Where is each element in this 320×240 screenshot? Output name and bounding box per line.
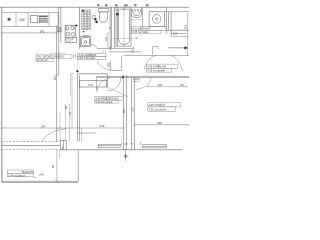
shelf with 170 — [80, 80, 107, 87]
dim line left 347/218 — [1, 127, 125, 129]
svg-text:53: 53 — [53, 77, 57, 80]
washbasin bathroom1 — [81, 35, 91, 46]
wall line mid — [109, 51, 142, 53]
wall WC right — [110, 7, 116, 48]
radiator 2 — [143, 145, 167, 148]
svg-text:310: 310 — [184, 24, 188, 29]
drain dot — [83, 31, 85, 33]
label balcony — [7, 170, 33, 177]
vent grate — [133, 78, 140, 81]
label bathroom1 — [78, 53, 106, 59]
extension line right — [80, 129, 82, 142]
svg-text:1,74 m2 gres pł.: 1,74 m2 gres pł. — [8, 174, 26, 177]
wall corridor bottom — [96, 75, 189, 77]
svg-text:ŁAZ 4,00 płytki: ŁAZ 4,00 płytki — [79, 57, 96, 60]
washing machine — [149, 12, 165, 27]
svg-text:ZM: ZM — [20, 18, 25, 22]
wall left — [1, 7, 3, 182]
balcony window band — [2, 141, 61, 151]
window dim ticks — [121, 142, 123, 146]
door arc corridor left — [97, 61, 110, 71]
inner line — [59, 150, 61, 158]
arrow mark at hob — [75, 24, 78, 27]
window sill top-right — [164, 11, 189, 13]
plumbing circle — [92, 15, 96, 19]
towel radiator grid — [82, 10, 91, 30]
plumbing dot2 — [95, 21, 97, 23]
svg-text:42: 42 — [68, 112, 72, 115]
radiator valve blob — [82, 10, 84, 12]
wall basin/WM divider — [141, 7, 143, 27]
svg-text:341: 341 — [40, 29, 45, 33]
wall bathroom1 left — [79, 7, 81, 49]
door arc room right — [136, 77, 151, 89]
wall lines right — [166, 29, 189, 31]
small text right — [147, 86, 188, 88]
level marker — [124, 150, 128, 161]
bathtub — [117, 7, 131, 46]
wall room left top — [77, 74, 107, 142]
svg-text:110: 110 — [104, 36, 108, 41]
tick — [109, 47, 111, 51]
dotted riser — [76, 59, 78, 71]
label kitchen room — [36, 55, 72, 62]
kitchen sink unit — [65, 37, 76, 42]
wall top — [0, 6, 189, 8]
dim line right 248 — [133, 124, 189, 126]
wall kitchen/room divider — [54, 7, 61, 141]
svg-text:7,35 m2 panele: 7,35 m2 panele — [149, 107, 167, 111]
svg-text:×: × — [34, 176, 36, 180]
label room right bottom — [148, 103, 181, 112]
mullion wall — [60, 140, 66, 150]
svg-text:302: 302 — [158, 83, 163, 87]
door arc double left — [144, 56, 156, 71]
svg-text:347: 347 — [41, 124, 46, 128]
dot marker — [116, 13, 119, 16]
plumbing dot — [94, 18, 96, 20]
door arc below wall — [97, 78, 111, 92]
svg-text:98: 98 — [51, 165, 55, 168]
svg-text:48: 48 — [64, 106, 68, 109]
entrance arrow — [168, 47, 185, 49]
fridge icon in counter — [31, 15, 48, 22]
svg-text:5,46 m2 panele: 5,46 m2 panele — [96, 101, 114, 104]
leader diagonal — [107, 87, 128, 97]
svg-text:240: 240 — [39, 172, 44, 176]
label corridor — [95, 97, 124, 103]
radiator 1 — [98, 144, 120, 147]
svg-text:237: 237 — [131, 107, 135, 112]
label block WC — [132, 27, 167, 34]
wall bottom main — [60, 149, 182, 151]
dim vertical balcony — [56, 150, 58, 181]
dim vertical 110 — [107, 33, 109, 48]
wall bathroom1 bottom — [97, 47, 133, 49]
door arc room left — [107, 77, 121, 91]
tick mark kitchen top — [71, 23, 73, 27]
svg-text:7,45 m2 płytki: 7,45 m2 płytki — [132, 30, 148, 34]
svg-text:4.11 ŁAZIENKA: 4.11 ŁAZIENKA — [132, 27, 150, 31]
door arc double right — [170, 56, 182, 71]
tub faucet — [123, 9, 124, 10]
svg-text:298: 298 — [106, 62, 110, 67]
door arc balcony — [42, 129, 67, 142]
svg-text:120: 120 — [173, 32, 178, 36]
svg-text:3.43 SYPIALNIA: 3.43 SYPIALNIA — [147, 64, 166, 68]
svg-text:248: 248 — [157, 121, 162, 125]
dim verticals left — [60, 74, 73, 142]
extension line through tub — [123, 7, 125, 48]
tick on wall — [61, 147, 63, 150]
hotplate symbol in counter — [7, 18, 11, 22]
dot — [76, 70, 78, 72]
svg-text:170: 170 — [88, 83, 93, 87]
door arc bathroom1 — [91, 44, 98, 48]
wall top-right verticals — [166, 7, 171, 36]
outlet box — [58, 28, 61, 32]
washbasin right — [131, 8, 141, 17]
cooktop hob 4 burners — [65, 25, 76, 37]
mark — [73, 54, 75, 58]
kitchen counter — [2, 12, 58, 26]
svg-text:7,40 m2 panele: 7,40 m2 panele — [147, 68, 165, 72]
shaft verticals — [123, 75, 134, 150]
svg-text:297: 297 — [122, 108, 126, 113]
dimension text row top — [97, 5, 149, 7]
dimension line 341 — [1, 32, 58, 34]
toilet — [99, 9, 109, 23]
svg-text:218: 218 — [100, 124, 105, 128]
door jamb step — [153, 47, 158, 55]
balcony room walls — [2, 150, 78, 183]
svg-text:23,40 m2: 23,40 m2 — [37, 58, 48, 62]
wall corridor top — [124, 54, 189, 56]
label room right top — [146, 64, 178, 72]
